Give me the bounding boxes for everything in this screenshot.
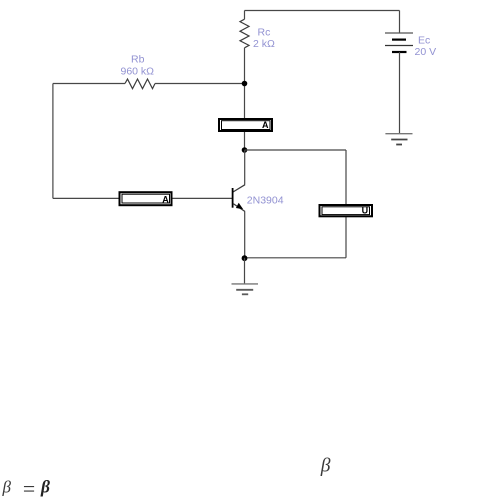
svg-text:20 V: 20 V — [415, 46, 437, 58]
transistor Q1 2N3904 — [233, 150, 245, 258]
svg-text:Rb: Rb — [131, 53, 145, 65]
label Ec value — [415, 35, 437, 59]
svg-text:β: β — [40, 477, 50, 497]
svg-text:β: β — [2, 478, 12, 497]
wire voltmeter right vertical — [345, 150, 347, 258]
battery Ec — [385, 33, 413, 52]
svg-text:=: = — [23, 476, 35, 498]
ground emitter — [232, 284, 259, 294]
emitter diagonal — [233, 204, 245, 212]
wire emitter to ground — [244, 258, 246, 284]
wire Rc bottom lead to node — [244, 48, 246, 84]
ammeter A1 collector — [219, 119, 272, 131]
ammeter A2 base — [120, 192, 172, 205]
label Rb value — [121, 53, 155, 77]
label Rc value — [253, 27, 275, 51]
base bar — [232, 188, 234, 208]
resistor Rb — [125, 79, 155, 89]
wire collector branch vertical through ammeter — [244, 84, 246, 151]
wire Rb left lead — [53, 83, 125, 85]
svg-text:β: β — [320, 456, 331, 477]
wire voltmeter top horizontal — [245, 149, 347, 151]
wire battery drop from top rail — [399, 11, 401, 34]
emitter arrow — [236, 203, 243, 210]
svg-text:Rc: Rc — [258, 27, 271, 39]
svg-text:960 kΩ: 960 kΩ — [121, 65, 155, 77]
collector diagonal — [233, 185, 245, 192]
ground battery — [385, 134, 412, 145]
wire left vertical branch — [52, 84, 54, 199]
svg-text:2N3904: 2N3904 — [247, 194, 284, 206]
resistor Rc — [240, 19, 249, 48]
svg-text:U: U — [362, 205, 369, 215]
node B junction collector/voltmeter top — [242, 147, 248, 153]
wire base branch horizontal — [53, 197, 233, 199]
wire Rb right lead to node — [155, 83, 245, 85]
wire top rail from Rc to battery — [245, 10, 400, 12]
svg-text:A: A — [162, 194, 169, 204]
wire battery to ground — [399, 52, 401, 134]
wire voltmeter bottom horizontal — [245, 257, 347, 259]
formula beta equation bottom-left — [2, 476, 51, 498]
svg-text:A: A — [262, 120, 269, 130]
svg-text:2 kΩ: 2 kΩ — [253, 38, 275, 50]
collector lead vertical — [244, 150, 246, 185]
voltmeter U — [320, 205, 373, 216]
node C junction emitter/voltmeter bottom — [242, 255, 248, 261]
svg-text:Ec: Ec — [418, 35, 430, 47]
node A junction Rb/Rc — [242, 81, 248, 87]
wire Rc top lead — [244, 11, 246, 20]
emitter lead vertical — [244, 212, 246, 258]
